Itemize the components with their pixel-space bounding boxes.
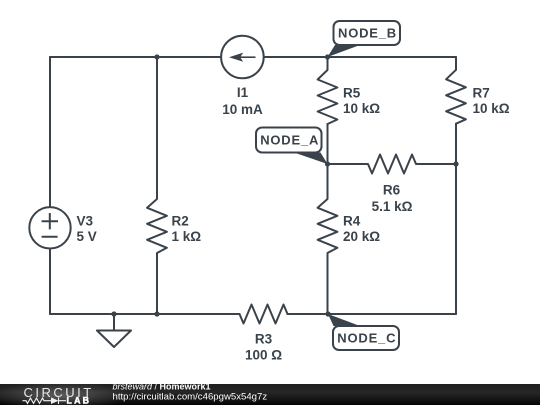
footer bar	[0, 384, 540, 405]
resistor R2	[147, 57, 167, 314]
svg-text:R7: R7	[473, 85, 490, 100]
resistor R5	[318, 57, 338, 124]
svg-text:10 kΩ: 10 kΩ	[343, 101, 380, 116]
svg-text:1 kΩ: 1 kΩ	[172, 229, 202, 244]
node NODE_C pointer	[328, 314, 360, 326]
junction dot (R2 bottom)	[154, 311, 159, 316]
svg-text:100 Ω: 100 Ω	[245, 348, 282, 363]
svg-text:10 kΩ: 10 kΩ	[473, 101, 510, 116]
svg-text:brsteward / Homework1: brsteward / Homework1	[113, 382, 211, 392]
svg-text:5 V: 5 V	[77, 229, 97, 244]
junction dot (ground)	[111, 311, 116, 316]
label R6 value	[372, 183, 413, 214]
node NODE_A	[256, 128, 322, 153]
svg-text:V3: V3	[77, 213, 94, 228]
node NODE_A pointer	[294, 153, 328, 165]
svg-text:LAB: LAB	[67, 396, 92, 405]
svg-text:5.1 kΩ: 5.1 kΩ	[372, 199, 413, 214]
svg-text:R6: R6	[383, 183, 401, 198]
CircuitLab logo mark (resistor + diode)	[23, 397, 67, 404]
junction dot (R6/R7)	[453, 161, 458, 166]
junction dot (node B)	[325, 54, 330, 59]
node NODE_B pointer	[328, 45, 361, 57]
svg-text:R2: R2	[172, 213, 189, 228]
svg-text:R4: R4	[343, 214, 361, 229]
label R5 value	[343, 85, 380, 116]
junction dot (node C)	[325, 311, 330, 316]
svg-text:NODE_B: NODE_B	[338, 26, 397, 41]
resistor R7	[446, 70, 466, 124]
wire bottom horizontal (left of R3)	[50, 313, 240, 315]
resistor R3	[240, 305, 288, 324]
current source I1	[221, 36, 264, 79]
svg-text:R5: R5	[343, 85, 361, 100]
label R2 value	[172, 213, 202, 244]
svg-text:I1: I1	[237, 85, 249, 100]
label R3 value	[245, 332, 282, 363]
voltage source V3	[29, 207, 70, 248]
node NODE_B	[334, 21, 401, 45]
wire right vertical	[455, 57, 457, 314]
label R4 value	[343, 214, 380, 245]
svg-text:R3: R3	[255, 332, 273, 347]
wire bottom horizontal (right of R3)	[288, 313, 457, 315]
node NODE_C	[333, 326, 399, 350]
resistor R6	[328, 155, 457, 174]
svg-text:10 mA: 10 mA	[222, 102, 263, 117]
wire mid vertical (R5 to node A)	[327, 124, 329, 164]
label V3 value	[77, 213, 97, 244]
junction dot (node A)	[325, 161, 330, 166]
svg-text:20 kΩ: 20 kΩ	[343, 229, 380, 244]
svg-text:NODE_A: NODE_A	[260, 133, 319, 148]
svg-text:NODE_C: NODE_C	[337, 331, 396, 346]
svg-text:http://circuitlab.com/c46pgw5x: http://circuitlab.com/c46pgw5x54g7z	[113, 392, 268, 403]
wire top horizontal	[50, 56, 456, 58]
resistor R4	[318, 164, 338, 314]
wire left vertical	[49, 57, 51, 314]
ground	[97, 314, 131, 347]
label I1 value	[222, 85, 263, 117]
junction dot (R2 top)	[154, 54, 159, 59]
label R7 value	[473, 85, 510, 116]
